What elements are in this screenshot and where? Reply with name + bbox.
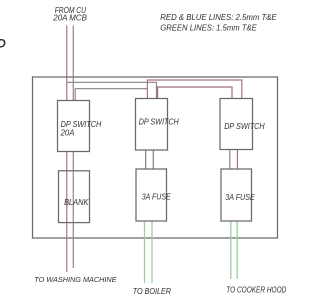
svg-text:DP SWITCH: DP SWITCH: [139, 117, 179, 126]
wire: green pair fuse 1 to boiler: [144, 221, 146, 283]
fuse 1 box 3A: [136, 169, 167, 221]
wire: live loop DP1 to DP2 horizontal: [67, 82, 157, 98]
wire: neutral loop DP1 to DP2 horizontal: [75, 89, 147, 101]
wire: DP1 output pair through blank plate to washing machine: [66, 152, 68, 273]
wire: red feed from CU to DP switch 1: [66, 26, 68, 101]
svg-text:D: D: [0, 37, 6, 51]
svg-text:TO WASHING MACHINE: TO WASHING MACHINE: [34, 275, 117, 284]
svg-text:DP SWITCH: DP SWITCH: [224, 122, 265, 131]
wire: blue feed from CU to DP switch 1: [72, 26, 74, 101]
blank plate box (wires pass through): [59, 171, 90, 223]
svg-text:20A: 20A: [60, 128, 75, 137]
DP switch 2 box: [136, 99, 168, 151]
wire: live loop DP2 to DP3: [147, 80, 241, 99]
svg-text:3A FUSE: 3A FUSE: [142, 193, 172, 202]
wire: DP2 to fuse 1 pair: [145, 150, 147, 169]
DP switch 1 box: [58, 101, 90, 152]
fuse 2 box 3A: [221, 169, 252, 221]
wire: neutral loop DP2 to DP3: [158, 87, 232, 99]
DP switch 3 box: [220, 99, 253, 150]
wire: DP3 to fuse 2 pair: [229, 150, 231, 170]
svg-text:BLANK: BLANK: [64, 198, 89, 207]
svg-text:GREEN LINES: 1.5mm T&E: GREEN LINES: 1.5mm T&E: [160, 24, 257, 33]
svg-text:TO BOILER: TO BOILER: [133, 287, 172, 296]
svg-text:3A FUSE: 3A FUSE: [225, 193, 255, 202]
svg-text:RED & BLUE LINES: 2.5mm T&E: RED & BLUE LINES: 2.5mm T&E: [160, 13, 277, 22]
wire: green pair fuse 2 to cooker hood: [230, 221, 232, 279]
svg-text:20A MCB: 20A MCB: [52, 14, 87, 23]
svg-text:TO COOKER HOOD: TO COOKER HOOD: [226, 285, 286, 294]
enclosure outer box: [33, 77, 278, 238]
